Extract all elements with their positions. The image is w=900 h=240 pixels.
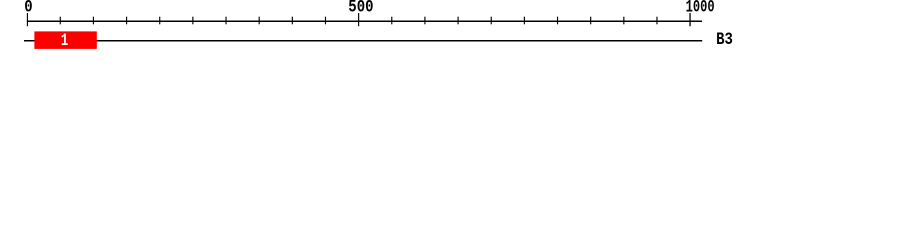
ruler label 500 [348,0,373,17]
ruler axis line [27,21,702,23]
feature box label 1 [61,31,68,51]
ruler major tick 1000 [689,13,690,26]
sequence line [24,40,702,42]
ruler label 1000 [686,0,715,17]
ruler minor ticks [60,17,658,25]
ruler label 0 [24,0,32,17]
track name B3 [716,30,733,50]
svg-text:1000: 1000 [686,0,715,17]
svg-text:1: 1 [61,31,68,51]
ruler major tick 0 [27,13,28,26]
feature box 1 (red) [34,31,96,49]
ruler major tick 500 [358,13,359,26]
svg-text:B3: B3 [716,30,733,50]
svg-text:500: 500 [348,0,373,17]
svg-text:0: 0 [24,0,32,17]
